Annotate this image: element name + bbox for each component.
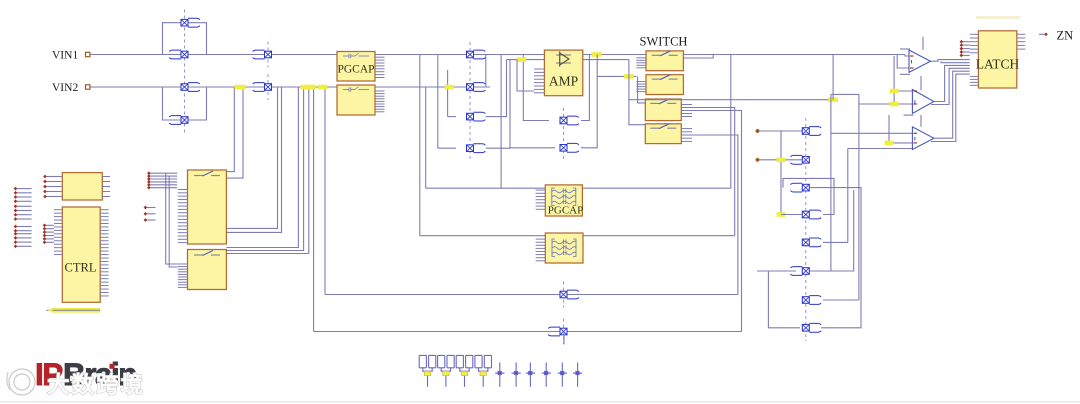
transistor M14 xyxy=(548,319,567,345)
wire comp2 clock xyxy=(920,76,922,90)
label AMP xyxy=(549,74,578,89)
wire bundle c1a xyxy=(931,60,970,62)
transistor M17 xyxy=(791,183,810,192)
wire comp2 feed v xyxy=(893,56,895,104)
junction c3 xyxy=(885,141,894,146)
pins SWITCH2 left xyxy=(636,82,646,92)
capacitor C5 xyxy=(495,362,504,386)
wire col3 left bracket a xyxy=(437,55,439,149)
port P1 xyxy=(756,129,760,133)
block PGCAP1 xyxy=(337,52,375,82)
pins CTRL red cluster xyxy=(43,223,54,244)
pins CTRL right xyxy=(100,210,108,296)
footer divider xyxy=(0,401,1080,402)
icon SWITCH2 xyxy=(652,75,678,80)
block CTRL xyxy=(62,207,100,302)
block AMP xyxy=(544,50,582,96)
wire cap row stub xyxy=(563,332,565,345)
pins LATCH left top xyxy=(970,34,979,53)
svg-text:大数跨境: 大数跨境 xyxy=(47,372,145,398)
port VIN2 xyxy=(86,85,90,89)
wire comp3 bias xyxy=(848,148,913,150)
svg-text:PGCAP: PGCAP xyxy=(337,64,374,76)
wire col3 left stub a xyxy=(438,147,456,149)
wire amp pin feed xyxy=(517,60,534,91)
pins SB1 red cluster xyxy=(147,171,177,189)
wire s4 to netB xyxy=(692,135,738,295)
transistor M18 xyxy=(802,210,821,219)
block PGCAP1b xyxy=(337,85,375,115)
pins PGCAP1b right xyxy=(375,91,385,112)
pins SWITCH1 left xyxy=(636,58,646,68)
comparator U2 xyxy=(912,90,934,114)
junction VIN2-B xyxy=(318,85,327,90)
wire bundle c2a xyxy=(934,65,970,101)
pins PGCAP1 right xyxy=(375,57,385,77)
wire m pair lower link xyxy=(510,147,555,149)
transistor M16 xyxy=(791,155,810,164)
transistor M9 xyxy=(467,112,486,121)
pins CTRLa left xyxy=(43,175,62,199)
wire comp3 bot in xyxy=(889,115,912,143)
block PGCAP2 xyxy=(545,185,582,216)
pin trio xyxy=(144,206,156,222)
pins PGCAP3 left xyxy=(536,239,546,261)
wire chain top box xyxy=(783,178,834,214)
wire mid bus up xyxy=(832,55,834,100)
block CTRLa xyxy=(62,173,102,200)
wire comp1 bias top xyxy=(900,48,910,50)
pin cluster L1 xyxy=(14,187,32,203)
wire VIN2 continuation xyxy=(470,86,490,88)
wire s1 up feed xyxy=(646,55,713,59)
transistor M5 xyxy=(253,42,272,68)
wire comp1 bot in xyxy=(897,55,909,69)
wire chain t5 link xyxy=(823,241,848,243)
wire chain t7 link xyxy=(823,299,859,301)
wire s3a to pgcap3 xyxy=(692,108,735,236)
wire pair gate dashed line xyxy=(563,108,565,160)
wire SB2 feed b xyxy=(226,87,303,251)
transistor M1 xyxy=(181,18,200,27)
icon SWITCH4 xyxy=(650,124,676,129)
svg-text:LATCH: LATCH xyxy=(976,57,1020,72)
wire v859 xyxy=(858,94,860,300)
wire chain t6 in xyxy=(757,270,796,272)
label VIN2 xyxy=(52,82,78,94)
svg-text:VIN1: VIN1 xyxy=(52,50,78,62)
transistor M20 xyxy=(791,267,810,276)
wire col3 left bracket b xyxy=(447,70,449,117)
wire s3 feed xyxy=(629,60,645,125)
wire s3 feed b xyxy=(638,76,646,103)
svg-text:AMP: AMP xyxy=(549,74,578,89)
block LATCH xyxy=(978,31,1016,88)
wire comp2 bias bot xyxy=(904,114,914,116)
pin cluster L4 xyxy=(14,232,32,248)
block SWITCH2 xyxy=(646,75,683,95)
pin cluster L2 xyxy=(14,204,32,220)
svg-text:VIN2: VIN2 xyxy=(52,82,78,94)
capacitor C7 xyxy=(526,362,535,386)
pins SB1 left xyxy=(178,190,188,243)
wire net A drop xyxy=(313,87,315,332)
wire bracket lower pair xyxy=(163,87,207,120)
pins CTRL left xyxy=(54,210,62,255)
icon PGCAP1b xyxy=(343,87,369,92)
label SWITCH xyxy=(640,35,688,49)
pins AMP left xyxy=(534,69,544,93)
block SB1 xyxy=(188,170,227,244)
icon SWITCH1 xyxy=(652,51,678,56)
wire VIN1 bus xyxy=(90,55,909,57)
block SB2 xyxy=(188,250,227,290)
junction c2b xyxy=(890,102,899,107)
pins LATCH right xyxy=(1017,34,1026,49)
icon PGCAP1 xyxy=(343,53,369,58)
transistor M11 xyxy=(560,116,579,125)
transistor M19 xyxy=(802,238,821,247)
wire amp out xyxy=(583,54,905,56)
label PGCAP2 xyxy=(548,205,583,217)
wire p drop xyxy=(780,131,782,215)
block SWITCH3 xyxy=(645,99,681,121)
comparator U3 xyxy=(912,127,934,150)
wire comp1 clock xyxy=(922,37,924,50)
wire chain t3 link xyxy=(810,188,862,328)
watermark xyxy=(7,369,145,398)
svg-text:PGCAP: PGCAP xyxy=(548,205,583,217)
label LATCH xyxy=(976,57,1020,72)
wire comp1 bias bot xyxy=(900,73,910,75)
junction col3 xyxy=(445,85,454,90)
wire comp3 top in xyxy=(831,132,913,134)
transistor M8 xyxy=(467,83,486,92)
ghost above LATCH xyxy=(976,16,1020,19)
wire bracket upper pair xyxy=(163,23,207,55)
junction mid bus xyxy=(828,97,838,102)
capacitor C1 xyxy=(419,355,436,386)
wire bundle c1b xyxy=(941,61,970,63)
wire PGCAP2 feed xyxy=(425,87,427,188)
wire net A xyxy=(314,331,742,333)
capacitor C10 xyxy=(573,362,582,386)
wire comp2 bot in xyxy=(859,103,913,105)
junction VIN2-A xyxy=(301,85,316,90)
logo IPBrain xyxy=(35,356,136,392)
transistor M3 xyxy=(181,83,200,92)
capacitor C6 xyxy=(512,362,521,386)
wire m pair upper feed xyxy=(523,55,549,121)
capacitor C9 xyxy=(558,362,567,386)
wire chain t6 right link xyxy=(810,190,854,271)
pins SWITCH3 right xyxy=(681,105,692,117)
wire bus drop x501 xyxy=(500,55,502,189)
junction s2 cross xyxy=(624,74,634,79)
svg-text:CTRL: CTRL xyxy=(65,261,97,275)
wire col3 left stub b xyxy=(448,116,456,118)
highlighted net under CTRL xyxy=(46,308,100,313)
svg-text:ZN: ZN xyxy=(1057,29,1074,43)
wire v831 xyxy=(830,94,832,271)
wire SB1 feed c xyxy=(226,87,277,228)
wire chain gate dashed line xyxy=(805,118,807,341)
wire comp2 top in xyxy=(894,90,912,92)
icon PGCAP2 xyxy=(552,188,576,206)
wire amp out drop a xyxy=(581,55,589,121)
wire h944 xyxy=(831,93,859,95)
port ZN xyxy=(1039,32,1048,36)
wire SB2 left feed a xyxy=(166,173,178,264)
label PGCAP1 xyxy=(337,64,374,76)
wire col3 gate dashed line xyxy=(469,42,471,161)
block SWITCH4 xyxy=(645,124,681,144)
port VIN1 xyxy=(86,52,90,56)
wire amp line2 xyxy=(507,59,545,61)
transistor M7 xyxy=(467,50,486,59)
junction amp out xyxy=(592,52,602,57)
transistor M13 xyxy=(560,282,579,308)
pins CTRLa right xyxy=(102,177,110,197)
svg-text:SWITCH: SWITCH xyxy=(640,35,688,49)
transistor M12 xyxy=(560,143,579,152)
wire col3 r1 up xyxy=(486,60,507,117)
wire p2 xyxy=(759,159,802,161)
capacitor C8 xyxy=(542,362,551,386)
wire chain t2 in xyxy=(781,214,802,216)
block SWITCH1 xyxy=(646,51,683,71)
transistor M2 xyxy=(169,50,188,59)
wire pgcap2 row xyxy=(426,187,731,189)
wire SB2 left feed b xyxy=(169,176,177,267)
icon SB1 xyxy=(194,171,220,176)
icon SWITCH3 xyxy=(650,99,676,104)
wire amp out drop b xyxy=(581,55,597,148)
wire chain left bracket xyxy=(768,271,800,328)
wire SB2 feed a xyxy=(226,87,298,248)
wire net B drop xyxy=(324,87,326,295)
pins PGCAP2 left xyxy=(536,190,546,209)
capacitor C3 xyxy=(456,355,473,386)
wire p1 xyxy=(759,130,802,132)
junction VIN2-SB1 xyxy=(235,85,246,90)
wire bundle c3b xyxy=(931,74,970,141)
transistor M4 xyxy=(169,116,188,125)
wire bundle c2b xyxy=(931,68,970,104)
transistor M6 xyxy=(253,74,272,100)
capacitor C2 xyxy=(438,355,455,386)
wire s2 feed xyxy=(597,75,636,77)
icon SB2 xyxy=(194,251,220,256)
transistor M10 xyxy=(467,144,486,153)
wire SB2 feed c xyxy=(226,87,308,254)
wire col3 right bracket xyxy=(485,55,487,88)
icon PGCAP3 xyxy=(552,239,576,257)
transistor M21 xyxy=(802,296,821,305)
junction c2a xyxy=(890,89,899,94)
wire net B xyxy=(325,294,738,296)
wire SB1 feed a xyxy=(226,87,234,172)
wire comp3 clock xyxy=(920,115,922,127)
junction p drop 2 xyxy=(777,212,786,217)
wire amp line2 right xyxy=(583,59,629,61)
transistor M15 xyxy=(802,127,821,136)
wire VIN2 bus xyxy=(90,86,470,88)
wire line2 drop x510 xyxy=(486,60,510,149)
label ZN xyxy=(1057,29,1074,43)
pin cluster L3 xyxy=(14,225,32,233)
wire riser x730 xyxy=(730,55,732,189)
wire v848 xyxy=(847,149,849,243)
icon AMP op-amp xyxy=(556,51,571,67)
pins LATCH red cluster xyxy=(960,40,970,57)
capacitor C4 xyxy=(475,355,492,386)
wire s3b to netA xyxy=(692,111,742,332)
wire mid bus xyxy=(629,99,834,101)
comparator U1 xyxy=(909,50,931,72)
transistor M22 xyxy=(802,323,821,332)
wire SB1 feed d xyxy=(226,87,281,232)
pins LATCH left bottom xyxy=(970,76,979,85)
block PGCAP3 xyxy=(545,233,583,263)
junction line2 x523 xyxy=(517,57,527,62)
label CTRL xyxy=(65,261,97,275)
wire bundle c3a xyxy=(934,71,970,138)
pins SWITCH4 right xyxy=(681,129,692,142)
wire SB1 feed b xyxy=(226,87,243,178)
port P2 xyxy=(756,158,760,162)
wire PGCAP3 feed xyxy=(419,55,421,236)
label VIN1 xyxy=(52,50,78,62)
wire input gate dashed line xyxy=(184,10,186,134)
wire pgcap3 row xyxy=(420,235,735,237)
junction p drop 1 xyxy=(777,158,786,163)
pins SB2 left xyxy=(178,264,188,287)
